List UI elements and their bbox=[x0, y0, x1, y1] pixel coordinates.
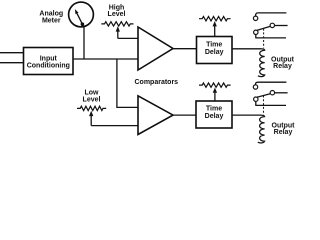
potentiometer R3 time delay A adjust bbox=[199, 17, 231, 37]
svg-text:Level: Level bbox=[108, 11, 126, 18]
time delay block B bbox=[196, 101, 232, 128]
relay K2 mechanical link (dashed) bbox=[263, 96, 265, 115]
svg-text:Time: Time bbox=[206, 105, 222, 112]
label: Low Level bbox=[83, 90, 101, 104]
comparator B (low) bbox=[138, 96, 173, 135]
wire: time delay B to relay coil B bbox=[232, 114, 261, 116]
svg-text:Comparators: Comparators bbox=[135, 79, 179, 86]
wire: input signal pair bbox=[0, 53, 24, 63]
comparator A (high) bbox=[138, 27, 173, 70]
input conditioning block bbox=[24, 48, 74, 75]
relay K1 NO contact bbox=[270, 23, 288, 27]
wire: meter tap bbox=[83, 27, 85, 59]
relay K2 NO contact bbox=[270, 91, 287, 95]
svg-text:Input: Input bbox=[40, 55, 58, 62]
wire: low setpoint to comparator B bbox=[91, 125, 138, 127]
relay K1 NC contact bbox=[253, 13, 286, 21]
label: High Level bbox=[108, 4, 126, 18]
relay K2 NC contact bbox=[253, 82, 286, 89]
analog meter M1 bbox=[69, 2, 94, 27]
label: Analog Meter bbox=[39, 11, 63, 25]
wire: branch to comparator B bbox=[117, 59, 138, 107]
wire: time delay A to relay coil A bbox=[232, 48, 261, 50]
svg-text:Delay: Delay bbox=[205, 49, 224, 56]
label: Output Relay (lower) bbox=[272, 122, 296, 136]
svg-text:Conditioning: Conditioning bbox=[27, 62, 70, 69]
svg-text:Time: Time bbox=[206, 41, 222, 48]
relay K1 mechanical link (dashed) bbox=[263, 29, 265, 49]
potentiometer R4 time delay B adjust bbox=[199, 83, 231, 101]
svg-text:Level: Level bbox=[83, 97, 101, 104]
relay K2 pole and armature bbox=[254, 94, 286, 106]
relay K2 coil bbox=[258, 115, 265, 143]
svg-text:Relay: Relay bbox=[274, 129, 293, 136]
svg-text:Delay: Delay bbox=[205, 113, 224, 120]
potentiometer R2 Low Level setpoint bbox=[77, 106, 106, 125]
relay K1 coil bbox=[258, 49, 265, 77]
relay K1 pole and armature bbox=[254, 26, 286, 38]
wire: high setpoint to comparator A bbox=[118, 37, 139, 39]
wire: comparator A to time delay A bbox=[173, 48, 197, 50]
time delay block A bbox=[197, 37, 233, 64]
svg-text:Meter: Meter bbox=[42, 18, 61, 25]
wire: comparator B to time delay B bbox=[173, 114, 196, 116]
wire: signal bus to comparators bbox=[73, 58, 138, 60]
label: Comparators bbox=[135, 79, 179, 86]
svg-text:Relay: Relay bbox=[273, 63, 292, 70]
potentiometer R1 High Level setpoint bbox=[101, 22, 133, 39]
label: Output Relay (upper) bbox=[271, 56, 295, 70]
